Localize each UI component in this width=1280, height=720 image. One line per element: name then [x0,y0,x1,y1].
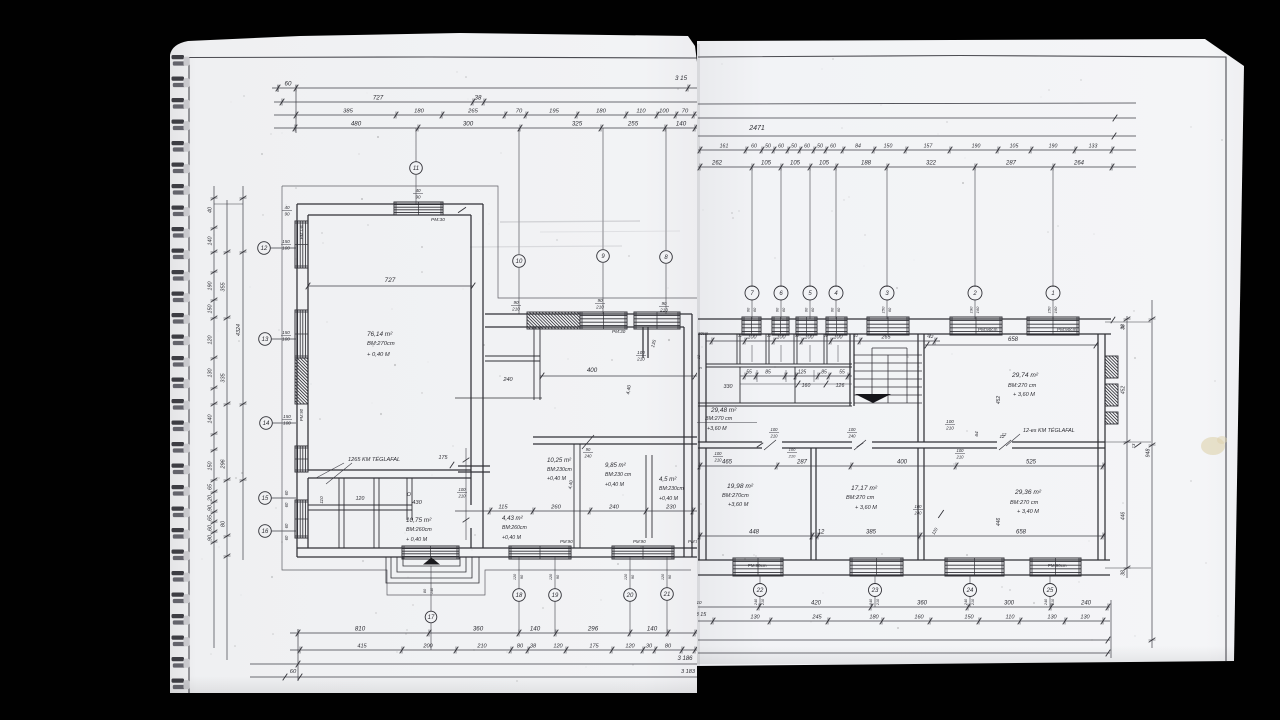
svg-text:452: 452 [1121,386,1127,395]
small room partitions [338,478,340,548]
svg-text:60: 60 [810,307,815,312]
bottom windows [402,546,459,559]
svg-text:150: 150 [208,462,214,471]
svg-text:240: 240 [848,433,857,438]
spiral binding mark [172,98,185,102]
svg-text:60: 60 [752,307,757,312]
svg-text:296: 296 [221,458,227,469]
svg-text:385: 385 [343,109,353,115]
svg-text:465: 465 [722,460,733,466]
bottom chain 1 [290,632,697,634]
svg-text:PM:90cm: PM:90cm [748,563,767,568]
svg-text:150: 150 [964,615,974,621]
left chain 3 [242,186,244,560]
grid bubble 16 [259,525,272,538]
svg-text:727: 727 [373,95,384,102]
svg-text:65: 65 [208,514,214,521]
dim 658 top [925,344,1098,346]
spiral binding mark [172,227,185,231]
eaves outline [282,186,697,298]
svg-text:10: 10 [516,259,523,265]
svg-text:60: 60 [284,490,289,495]
svg-text:150: 150 [282,239,290,244]
svg-text:29,74 m²: 29,74 m² [1011,372,1039,379]
seam shadow [697,44,700,666]
svg-text:18: 18 [516,593,523,599]
svg-text:PM:90cm: PM:90cm [978,327,998,332]
svg-text:10: 10 [696,600,702,605]
right wall hatch [1105,356,1118,378]
spiral binding mark [172,636,185,640]
left chain 1 [213,186,215,648]
svg-text:140: 140 [647,626,658,633]
chain A [272,87,697,89]
svg-text:115: 115 [498,505,508,511]
svg-text:60: 60 [830,307,835,312]
svg-text:11: 11 [413,166,419,172]
spiral binding mark [172,442,185,446]
svg-text:130: 130 [1080,615,1090,621]
svg-text:105: 105 [819,161,830,167]
svg-text:PM:30: PM:30 [431,217,445,223]
bottom windows [733,558,783,576]
svg-text:20: 20 [208,495,214,502]
svg-text:19,98 m²: 19,98 m² [727,483,754,490]
svg-text:200: 200 [422,644,433,650]
svg-text:100: 100 [637,350,645,355]
svg-text:100: 100 [777,335,786,341]
svg-text:PM:90cm: PM:90cm [1057,327,1077,332]
svg-text:240: 240 [914,510,923,515]
svg-text:22: 22 [756,588,764,594]
svg-text:3 186: 3 186 [677,656,693,662]
svg-text:90: 90 [597,298,603,303]
svg-text:430: 430 [412,500,422,506]
svg-text:4324: 4324 [236,324,242,336]
svg-text:24: 24 [966,588,974,594]
svg-text:38: 38 [530,644,537,650]
chain connector [295,85,297,133]
svg-text:3 183: 3 183 [681,669,696,675]
svg-text:110: 110 [636,109,646,115]
svg-text:210: 210 [971,598,975,606]
right bottom chain 2 [698,620,1110,622]
svg-text:105: 105 [761,161,772,167]
svg-text:100: 100 [282,336,290,341]
svg-text:40: 40 [208,207,214,213]
big room left wall [296,204,298,557]
svg-text:80: 80 [221,520,227,527]
svg-text:BM:260cm: BM:260cm [406,527,432,533]
svg-text:90: 90 [284,211,290,216]
stain [1201,437,1225,455]
spiral binding mark [172,593,185,597]
spiral binding mark [172,550,185,554]
svg-text:120: 120 [553,644,563,650]
cluster dims [706,340,940,342]
spiral binding mark [172,679,185,683]
spiral binding mark [172,571,185,575]
dim 400 [540,375,697,377]
svg-text:100: 100 [283,420,291,425]
spiral binding mark [172,335,185,339]
spiral binding mark [172,507,185,511]
svg-text:157: 157 [924,144,934,150]
svg-text:PM:90: PM:90 [299,408,304,421]
grid bubble 12 [258,242,271,255]
svg-text:60: 60 [284,502,289,507]
top wall windows [742,317,761,335]
left wall hatch pier [295,358,308,404]
svg-text:130: 130 [750,615,760,621]
svg-text:12: 12 [1002,432,1007,437]
svg-text:12: 12 [929,334,934,339]
svg-text:70: 70 [682,109,689,115]
svg-text:85: 85 [765,370,771,376]
grid bubble 13 [259,333,272,346]
svg-text:60: 60 [804,307,809,312]
svg-text:100: 100 [748,335,757,341]
svg-text:300: 300 [1004,601,1015,607]
svg-text:110: 110 [1006,615,1016,621]
svg-text:1: 1 [1051,291,1054,297]
svg-text:446: 446 [1121,512,1127,521]
svg-text:420: 420 [811,601,822,607]
svg-text:64: 64 [974,431,980,437]
svg-text:60: 60 [284,523,289,528]
grid bubble 8 [665,128,667,250]
svg-text:30: 30 [646,644,653,650]
room partition 2 [917,448,919,560]
svg-text:133: 133 [1089,144,1098,150]
svg-text:658: 658 [1008,337,1019,343]
svg-text:29,36 m²: 29,36 m² [1014,489,1042,496]
svg-text:287: 287 [796,460,808,466]
spiral binding mark [172,657,185,661]
svg-text:446: 446 [996,518,1002,527]
svg-text:100: 100 [282,245,290,250]
svg-text:50: 50 [817,144,823,150]
entrance porch steps [386,557,479,583]
svg-text:80: 80 [517,644,524,650]
svg-text:322: 322 [926,161,937,167]
svg-text:BM:260cm: BM:260cm [502,525,527,531]
svg-text:150: 150 [282,330,290,335]
spiral binding mark [172,120,185,124]
svg-text:230: 230 [665,505,676,511]
svg-text:190: 190 [972,144,981,150]
svg-text:60: 60 [208,525,214,531]
svg-text:+ 0,40 M: + 0,40 M [406,537,428,543]
svg-text:190: 190 [208,282,214,291]
left page [170,33,697,693]
svg-text:160: 160 [914,615,924,621]
svg-text:296: 296 [587,626,599,633]
svg-text:175: 175 [589,644,599,650]
svg-text:400: 400 [587,367,598,374]
svg-text:65: 65 [208,483,214,490]
spiral binding mark [172,485,185,489]
bottom chain 2 [290,649,697,651]
right wall [1097,334,1099,560]
svg-text:100: 100 [957,448,965,453]
spiral binding mark [172,614,185,618]
spiral binding mark [172,184,185,188]
spiral binding mark [172,421,185,425]
svg-text:100: 100 [834,335,843,341]
svg-text:+3,60 M: +3,60 M [728,502,749,508]
svg-text:125: 125 [798,370,807,376]
room dim 727 [308,285,473,287]
svg-text:BM:270cm: BM:270cm [367,341,395,347]
left chain 2 [226,200,228,660]
svg-text:658: 658 [1016,530,1027,536]
svg-text:+ 0,40 M: + 0,40 M [367,352,390,358]
svg-text:90: 90 [586,447,591,452]
svg-text:240: 240 [1080,601,1092,607]
bottom grid stems + circles [518,557,520,589]
section right wall [691,314,693,557]
right bottom rules [698,639,1110,641]
svg-text:80: 80 [665,644,672,650]
svg-text:188: 188 [861,161,872,167]
svg-text:360: 360 [473,626,484,633]
svg-text:100: 100 [805,335,814,341]
svg-text:415: 415 [357,644,367,650]
svg-text:240: 240 [1044,598,1048,606]
svg-text:452: 452 [996,396,1002,405]
svg-text:240: 240 [754,598,758,606]
svg-text:10,75 m²: 10,75 m² [406,517,432,524]
svg-text:BM:270 cm: BM:270 cm [1010,500,1039,506]
svg-text:90: 90 [415,194,421,199]
spiral binding mark [172,249,185,253]
right page [697,39,1244,666]
svg-text:150: 150 [1047,306,1052,313]
svg-text:287: 287 [1005,161,1017,167]
svg-text:100: 100 [459,487,467,492]
svg-text:29,48 m²: 29,48 m² [710,407,737,414]
bottom grid circles [759,575,761,584]
svg-text:150: 150 [884,144,893,150]
small rooms cluster [706,363,852,365]
svg-text:150: 150 [208,305,214,314]
mid partition [533,436,697,438]
spiral binding mark [172,163,185,167]
svg-text:210: 210 [636,356,645,361]
svg-text:O: O [407,492,411,498]
right page frame [698,56,1226,662]
spiral binding mark [172,292,185,296]
svg-text:16: 16 [262,529,269,535]
svg-text:+0,40 M: +0,40 M [547,476,567,482]
wc partition walls [485,355,540,357]
svg-text:150: 150 [283,414,291,419]
svg-text:210: 210 [476,644,487,650]
top wall window [580,312,627,329]
svg-text:2471: 2471 [748,125,765,132]
left page drawing frame [189,57,697,693]
svg-text:60: 60 [284,535,289,540]
spiral binding mark [172,206,185,210]
svg-text:17,17 m²: 17,17 m² [851,485,878,492]
svg-text:262: 262 [711,161,723,167]
svg-text:60: 60 [887,307,892,312]
spiral binding mark [172,378,185,382]
chain fine [698,149,1136,151]
svg-text:210: 210 [511,306,520,311]
svg-text:38: 38 [1121,570,1127,576]
top rule 2 [698,117,1136,119]
hall partition [308,469,471,471]
svg-text:330: 330 [724,384,733,390]
svg-text:BM:230cm: BM:230cm [547,467,572,473]
svg-text:180: 180 [414,109,424,115]
left wall [698,334,700,560]
svg-text:255: 255 [627,121,639,128]
hall dim vertical [465,448,467,540]
svg-text:140: 140 [430,587,434,594]
svg-text:265: 265 [881,335,892,341]
svg-text:260: 260 [550,505,561,511]
svg-text:525: 525 [1026,460,1037,466]
mid wall [698,441,762,443]
svg-text:325: 325 [572,121,583,128]
svg-text:210: 210 [956,454,965,459]
svg-text:BM:270 cm: BM:270 cm [1008,383,1037,389]
svg-text:210: 210 [458,493,467,498]
svg-text:100: 100 [771,427,779,432]
svg-text:1265 KM TÉGLAFAL: 1265 KM TÉGLAFAL [348,456,400,463]
svg-text:300: 300 [463,121,474,128]
svg-text:3 15: 3 15 [696,612,707,618]
svg-text:385: 385 [866,530,877,536]
left wall windows [295,221,308,268]
svg-text:84: 84 [855,144,861,150]
svg-text:PM:90cm: PM:90cm [1048,563,1067,568]
svg-text:+0,40 M: +0,40 M [502,535,522,541]
grid bubble 17 [430,566,432,611]
svg-text:210: 210 [761,598,765,606]
svg-text:190: 190 [969,306,974,313]
svg-text:120: 120 [549,573,553,580]
svg-text:120: 120 [661,573,665,580]
svg-text:10,25 m²: 10,25 m² [547,457,572,464]
svg-text:BM:270cm: BM:270cm [722,493,749,499]
svg-text:90: 90 [661,301,667,306]
spiral binding mark [172,55,185,59]
svg-text:60: 60 [836,307,841,312]
svg-text:4,5 m²: 4,5 m² [659,476,677,483]
svg-text:210: 210 [945,425,954,430]
svg-text:PM:130: PM:130 [299,224,304,239]
svg-text:105: 105 [1010,144,1019,150]
svg-text:120: 120 [208,336,214,345]
svg-text:+ 3,60 M: + 3,60 M [1013,392,1035,398]
svg-text:70: 70 [516,109,523,115]
svg-text:BM:270 cm: BM:270 cm [705,416,733,422]
grid bubble 15 [259,492,272,505]
svg-text:240: 240 [964,598,968,606]
svg-text:100: 100 [789,447,796,452]
right bottom chain 1 [698,606,1110,608]
stair-hall wall [917,334,919,442]
svg-text:160: 160 [1053,306,1058,313]
svg-text:210: 210 [770,433,779,438]
svg-text:60: 60 [751,144,757,150]
spiral binding mark [172,270,185,274]
svg-text:240: 240 [584,453,593,458]
svg-text:PM:90: PM:90 [560,539,573,544]
svg-text:85: 85 [821,370,827,376]
svg-text:360: 360 [917,601,928,607]
svg-text:161: 161 [720,144,729,150]
bottom wall [297,547,697,549]
svg-text:160: 160 [975,306,980,313]
svg-text:448: 448 [749,530,760,536]
chain coarse [698,166,1136,168]
svg-text:100: 100 [915,504,923,509]
svg-text:210: 210 [876,598,880,606]
svg-text:120: 120 [624,573,628,580]
svg-text:4,43 m²: 4,43 m² [502,515,524,522]
svg-text:19: 19 [552,593,559,599]
svg-text:50: 50 [791,144,797,150]
svg-text:100: 100 [659,109,669,115]
spiral binding mark [172,141,185,145]
svg-text:140: 140 [530,626,541,633]
svg-text:PM:30: PM:30 [612,329,626,334]
dim line bottom rooms [698,535,1105,537]
svg-text:355: 355 [221,281,227,291]
svg-text:335: 335 [221,372,227,382]
svg-text:210: 210 [1051,598,1055,606]
svg-text:130: 130 [208,369,214,378]
top rule 1 [698,103,1136,104]
svg-text:100: 100 [715,451,723,456]
svg-text:120: 120 [513,573,517,580]
svg-text:21: 21 [663,592,671,598]
svg-text:175: 175 [439,455,449,461]
spiral binding mark [172,528,185,532]
svg-text:810: 810 [355,626,366,633]
svg-text:2: 2 [972,291,977,297]
svg-text:100: 100 [946,419,954,424]
erased pencil streaks [500,221,640,222]
svg-text:+3,60 M: +3,60 M [707,426,727,432]
svg-text:PM:90: PM:90 [633,539,646,544]
svg-text:210: 210 [714,457,723,462]
svg-text:60: 60 [775,307,780,312]
frac labels mid [945,419,955,431]
svg-text:90: 90 [513,300,519,305]
svg-text:240: 240 [608,505,619,511]
svg-text:55: 55 [746,370,752,376]
svg-text:150: 150 [881,306,886,313]
svg-text:17: 17 [428,615,435,621]
svg-text:180: 180 [869,615,879,621]
svg-text:90: 90 [208,505,214,511]
svg-text:9,85 m²: 9,85 m² [605,462,627,469]
wc2 walls [642,327,644,358]
svg-text:+ 3,60 M: + 3,60 M [855,505,877,511]
svg-text:20: 20 [626,593,634,599]
svg-text:100: 100 [849,427,857,432]
spiral binding mark [172,77,185,81]
svg-text:13: 13 [1131,443,1136,448]
chain B 727 [274,101,697,103]
spiral binding mark [172,356,185,360]
